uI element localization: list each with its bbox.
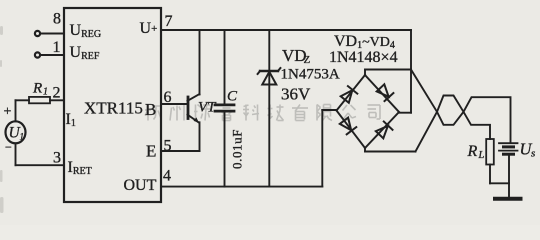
svg-text:1: 1 — [20, 132, 25, 142]
svg-text:1: 1 — [43, 87, 48, 98]
svg-text:4: 4 — [163, 168, 171, 185]
svg-text:1N4753A: 1N4753A — [281, 67, 340, 83]
svg-text:8: 8 — [53, 11, 61, 28]
svg-text:B: B — [145, 100, 156, 119]
svg-text:VT: VT — [198, 100, 217, 116]
svg-text:6: 6 — [164, 89, 172, 106]
svg-text:U+: U+ — [140, 20, 158, 37]
svg-text:R: R — [32, 81, 42, 97]
svg-text:Z: Z — [304, 54, 311, 66]
svg-text:3: 3 — [53, 150, 61, 167]
svg-text:0.01uF: 0.01uF — [230, 129, 245, 169]
svg-text:R: R — [467, 143, 478, 160]
svg-text:XTR115: XTR115 — [84, 99, 143, 118]
svg-text:5: 5 — [164, 138, 172, 155]
svg-text:−: − — [5, 140, 12, 154]
svg-text:s: s — [531, 148, 535, 160]
svg-text:+: + — [4, 105, 12, 120]
svg-text:C: C — [227, 89, 238, 105]
svg-text:7: 7 — [165, 13, 173, 30]
svg-text:2: 2 — [53, 85, 61, 102]
svg-text:OUT: OUT — [124, 177, 157, 194]
svg-text:36V: 36V — [281, 85, 311, 104]
svg-text:1: 1 — [53, 39, 61, 56]
svg-text:L: L — [478, 150, 485, 161]
svg-text:E: E — [146, 142, 156, 161]
svg-text:1N4148×4: 1N4148×4 — [329, 49, 398, 66]
